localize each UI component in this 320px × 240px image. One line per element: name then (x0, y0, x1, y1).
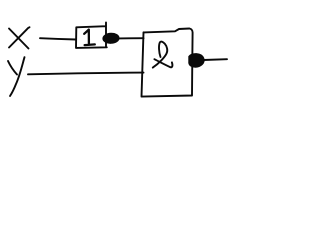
inverter U1 (IEC 1-box) (76, 23, 107, 48)
output wire (204, 58, 228, 61)
wire U1 to U2 (119, 37, 144, 39)
AND gate U2 (IEC &-box) (142, 29, 193, 97)
input label x (9, 27, 30, 48)
input label y (8, 57, 25, 96)
junction dot at U2 output (189, 54, 204, 67)
value label & (153, 42, 173, 68)
wire y to U2 (28, 73, 144, 75)
wire x to U1 (40, 38, 76, 39)
negation dot at U1 output (103, 33, 119, 44)
value label 1 (84, 30, 95, 45)
